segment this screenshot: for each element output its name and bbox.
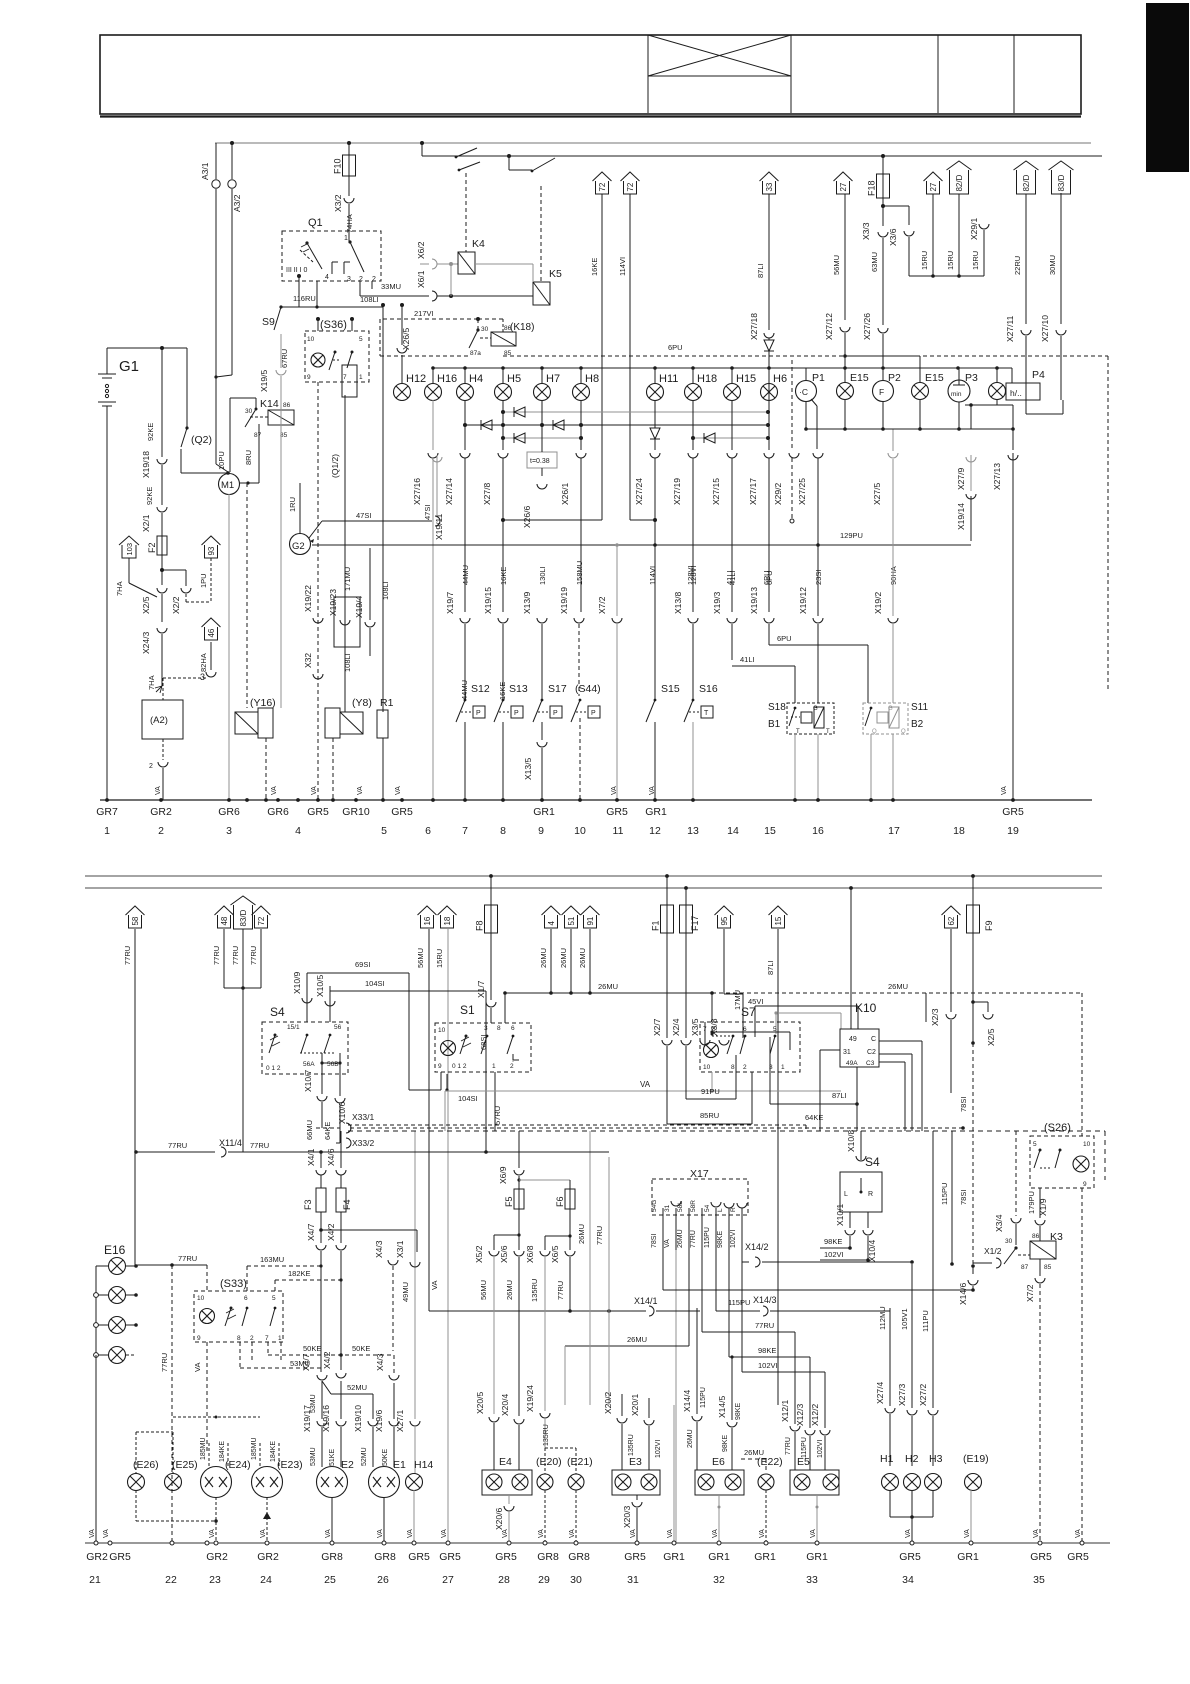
connector X19/14: [970, 496, 972, 541]
arrow symbol 62: [945, 915, 958, 928]
connector X10/1: [849, 1212, 851, 1228]
connector X6/1: [432, 291, 437, 301]
svg-text:X6/5: X6/5: [550, 1245, 560, 1263]
svg-text:66MU: 66MU: [305, 1120, 314, 1140]
svg-text:77RU: 77RU: [123, 946, 132, 965]
svg-text:E15: E15: [850, 372, 869, 384]
svg-text:X19/18: X19/18: [141, 451, 151, 478]
wire M1 ground: [228, 494, 230, 800]
svg-text:(E24): (E24): [225, 1459, 251, 1471]
svg-text:128VI: 128VI: [686, 565, 695, 585]
svg-text:92KE: 92KE: [145, 487, 154, 505]
title block dividers: [937, 35, 939, 113]
svg-text:5: 5: [272, 1295, 276, 1302]
svg-text:X19/7: X19/7: [445, 592, 455, 614]
svg-text:F: F: [879, 387, 884, 397]
svg-text:2: 2: [510, 1063, 514, 1070]
svg-text:22RU: 22RU: [1013, 256, 1022, 275]
svg-text:X19/14: X19/14: [956, 503, 966, 530]
fuse F5: [514, 1189, 524, 1209]
svg-text:X19/6: X19/6: [374, 1410, 384, 1432]
svg-text:9: 9: [307, 374, 311, 381]
svg-text:X4/6: X4/6: [326, 1148, 336, 1166]
svg-text:7: 7: [703, 1026, 707, 1033]
svg-text:C: C: [871, 1036, 876, 1043]
svg-text:A3/1: A3/1: [200, 162, 210, 180]
svg-text:S17: S17: [548, 683, 567, 695]
svg-text:VA: VA: [441, 1529, 448, 1538]
arrow symbol 72 bottom: [255, 915, 268, 928]
svg-text:82HA: 82HA: [199, 653, 208, 672]
diode row 2: [465, 424, 768, 426]
svg-text:7: 7: [462, 825, 468, 837]
wire VA bus: [445, 1090, 841, 1092]
svg-text:F18: F18: [867, 180, 877, 196]
svg-text:158MU: 158MU: [575, 561, 584, 585]
K10 wires: [850, 888, 852, 1029]
svg-text:VA: VA: [611, 786, 618, 795]
lamp H12: [394, 384, 411, 401]
lamp P4: [989, 383, 1006, 400]
svg-text:103: 103: [125, 543, 134, 556]
wire S36 pin9: [317, 382, 319, 800]
svg-text:(Y8): (Y8): [352, 697, 372, 709]
svg-text:VA: VA: [1033, 1529, 1040, 1538]
dashed separator line: [348, 1130, 1105, 1132]
svg-text:54: 54: [704, 1204, 711, 1212]
svg-text:185MU: 185MU: [200, 1437, 207, 1460]
svg-text:41LI: 41LI: [740, 655, 755, 664]
svg-text:(E25): (E25): [172, 1459, 198, 1471]
svg-text:(S44): (S44): [575, 683, 601, 695]
svg-text:53MU: 53MU: [310, 1447, 317, 1466]
svg-text:16: 16: [812, 825, 824, 837]
svg-text:9: 9: [197, 1335, 201, 1342]
arrow symbol 27: [837, 181, 850, 194]
svg-text:X24/3: X24/3: [141, 632, 151, 654]
svg-text:X27/18: X27/18: [749, 313, 759, 340]
svg-text:56: 56: [334, 1024, 342, 1031]
svg-text:X12/3: X12/3: [795, 1404, 805, 1426]
svg-text:H5: H5: [507, 373, 521, 385]
svg-text:49: 49: [849, 1036, 857, 1043]
svg-text:82/D: 82/D: [955, 174, 964, 191]
svg-text:S16: S16: [699, 683, 718, 695]
svg-text:S12: S12: [471, 683, 490, 695]
wires between lamps and switches: [432, 400, 434, 450]
svg-text:27: 27: [442, 1574, 454, 1586]
arrow symbol 72: [624, 181, 637, 194]
lamp H8: [573, 384, 590, 401]
svg-text:GR8: GR8: [568, 1551, 590, 1563]
svg-text:31: 31: [664, 1204, 671, 1212]
svg-text:X19/2: X19/2: [873, 592, 883, 614]
svg-text:52MU: 52MU: [347, 1383, 367, 1392]
connector X27/19: [688, 453, 698, 458]
svg-text:52MU: 52MU: [361, 1447, 368, 1466]
svg-text:H2: H2: [905, 1453, 919, 1465]
connector X10/9: [306, 973, 308, 1022]
svg-text:102VI: 102VI: [655, 1440, 662, 1458]
arrow symbol 91 bottom: [584, 915, 597, 928]
svg-text:VA: VA: [905, 1529, 912, 1538]
wire X26/5: [401, 305, 403, 345]
svg-text:X14/2: X14/2: [745, 1242, 769, 1252]
svg-text:VA: VA: [209, 1529, 216, 1538]
svg-text:GR2: GR2: [206, 1551, 228, 1563]
svg-text:30: 30: [570, 1574, 582, 1586]
connector X4/3 b: [389, 1375, 399, 1380]
svg-text:63MU: 63MU: [870, 252, 879, 272]
svg-text:X26/1: X26/1: [560, 483, 570, 505]
svg-text:X20/5: X20/5: [475, 1392, 485, 1414]
svg-text:130LI: 130LI: [538, 566, 547, 585]
wire X19/18: [161, 348, 163, 457]
svg-text:8: 8: [500, 825, 506, 837]
connector X19/23: [334, 597, 360, 647]
svg-text:X10/8: X10/8: [846, 1130, 856, 1152]
svg-text:E15: E15: [925, 372, 944, 384]
svg-text:31: 31: [627, 1574, 639, 1586]
svg-text:87LI: 87LI: [756, 263, 765, 278]
svg-text:51KE: 51KE: [329, 1449, 336, 1466]
svg-text:GR2: GR2: [257, 1551, 279, 1563]
svg-text:X19/15: X19/15: [483, 587, 493, 614]
svg-text:VA: VA: [649, 786, 656, 795]
connector X13/5: [537, 742, 547, 747]
svg-text:34: 34: [902, 1574, 914, 1586]
svg-text:X6/2: X6/2: [416, 241, 426, 259]
svg-text:26MU: 26MU: [677, 1229, 684, 1248]
svg-text:22: 22: [165, 1574, 177, 1586]
svg-text:15RU: 15RU: [435, 949, 444, 968]
arrow symbol 33: [763, 181, 776, 194]
arrow symbol 51 bottom: [565, 915, 578, 928]
svg-text:X5/6: X5/6: [499, 1245, 509, 1263]
svg-text:15/1: 15/1: [287, 1024, 300, 1031]
svg-text:69SI: 69SI: [355, 960, 370, 969]
svg-text:VA: VA: [1075, 1529, 1082, 1538]
relay K4: [458, 252, 475, 274]
black corner bar: [1146, 3, 1189, 172]
svg-text:54G: 54G: [651, 1200, 658, 1212]
timer box: [527, 452, 557, 468]
connector X27/24: [650, 453, 660, 458]
svg-text:98KE: 98KE: [758, 1346, 776, 1355]
connector X3/2: [348, 176, 350, 196]
svg-text:P3: P3: [965, 372, 978, 384]
connector X27/25: [813, 453, 823, 458]
connector X19/22: [313, 618, 323, 623]
connector X19/13: [764, 618, 774, 623]
P row top bus: [830, 367, 1012, 369]
svg-text:F1: F1: [651, 920, 661, 931]
svg-text:X10/5: X10/5: [315, 975, 325, 997]
svg-text:6PU: 6PU: [777, 634, 792, 643]
svg-text:24: 24: [260, 1574, 272, 1586]
svg-text:129PU: 129PU: [840, 531, 863, 540]
svg-text:K10: K10: [855, 1001, 877, 1015]
svg-text:X2/3: X2/3: [930, 1008, 940, 1026]
svg-text:G2: G2: [292, 541, 305, 552]
wire E16 ground: [95, 1355, 97, 1543]
svg-text:X27/9: X27/9: [956, 468, 966, 490]
connector X13/8: [688, 618, 698, 623]
svg-text:K5: K5: [549, 268, 562, 280]
svg-text:GR10: GR10: [342, 806, 370, 818]
svg-text:P: P: [591, 710, 596, 717]
svg-text:GR5: GR5: [899, 1551, 921, 1563]
svg-text:72: 72: [257, 916, 266, 925]
wire 171MU: [344, 395, 346, 712]
svg-text:1: 1: [278, 1335, 282, 1342]
connector X13/9: [537, 618, 547, 623]
svg-text:64KE: 64KE: [805, 1113, 823, 1122]
svg-text:10: 10: [574, 825, 586, 837]
wire 114VI: [629, 194, 631, 520]
svg-text:98KE: 98KE: [717, 1231, 724, 1248]
svg-text:X10/7: X10/7: [303, 1070, 313, 1092]
svg-text:H6: H6: [773, 373, 787, 385]
svg-text:E1: E1: [393, 1459, 406, 1471]
svg-text:108LI: 108LI: [360, 295, 379, 304]
svg-text:28: 28: [498, 1574, 510, 1586]
diode row 1: [503, 411, 768, 413]
svg-text:18: 18: [953, 825, 965, 837]
svg-text:P: P: [514, 710, 519, 717]
diode H11: [650, 428, 660, 439]
svg-text:E5: E5: [797, 1456, 810, 1468]
svg-text:29: 29: [538, 1574, 550, 1586]
svg-text:33MU: 33MU: [381, 282, 401, 291]
svg-text:26MU: 26MU: [578, 948, 587, 968]
svg-text:GR5: GR5: [1030, 1551, 1052, 1563]
svg-text:77RU: 77RU: [690, 1230, 697, 1248]
svg-text:X14/5: X14/5: [717, 1396, 727, 1418]
svg-text:GR5: GR5: [307, 806, 329, 818]
wire G1 minus: [106, 406, 108, 800]
svg-text:E16: E16: [104, 1243, 126, 1257]
fuse F9: [972, 876, 974, 905]
svg-text:X10/6: X10/6: [337, 1102, 347, 1124]
wire 78SI dashed: [972, 1002, 974, 1043]
arrow symbol 48 bottom: [218, 915, 231, 928]
connectors X5 X6: [518, 1209, 520, 1250]
connector X3/1b: [410, 1262, 420, 1267]
svg-text:GR5: GR5: [408, 1551, 430, 1563]
svg-text:108LI: 108LI: [343, 653, 352, 672]
wire A3/1: [215, 143, 217, 179]
svg-text:S13: S13: [509, 683, 528, 695]
svg-text:26MU: 26MU: [559, 948, 568, 968]
svg-text:1: 1: [492, 1063, 496, 1070]
svg-text:18: 18: [443, 916, 452, 925]
svg-text:X3/2: X3/2: [333, 194, 343, 212]
svg-text:9: 9: [438, 1063, 442, 1070]
svg-text:VA: VA: [430, 1281, 439, 1290]
arrow symbol 95 bottom: [718, 915, 731, 928]
connector X19/4: [369, 548, 371, 620]
connector X4/3: [388, 1260, 398, 1265]
svg-text:1PU: 1PU: [199, 573, 208, 588]
svg-text:6PU: 6PU: [762, 570, 771, 585]
svg-text:P2: P2: [888, 372, 901, 384]
svg-text:(E22): (E22): [757, 1456, 783, 1468]
svg-text:X13/9: X13/9: [522, 592, 532, 614]
fuse F8: [490, 876, 492, 905]
svg-text:62: 62: [947, 916, 956, 925]
svg-text:26MU: 26MU: [687, 1429, 694, 1448]
svg-text:X14/6: X14/6: [958, 1283, 968, 1305]
svg-text:X20/6: X20/6: [494, 1508, 504, 1530]
connector X19/19: [574, 618, 584, 623]
svg-text:P4: P4: [1032, 369, 1045, 381]
svg-text:8: 8: [497, 1025, 501, 1032]
svg-text:78SI: 78SI: [959, 1097, 968, 1112]
svg-text:135RU: 135RU: [530, 1279, 539, 1302]
connector X27/16: [428, 453, 438, 458]
fuse F17: [685, 888, 687, 905]
long wire 78SI: [663, 1289, 973, 1291]
svg-text:26: 26: [377, 1574, 389, 1586]
svg-text:5: 5: [381, 825, 387, 837]
svg-text:64KE: 64KE: [323, 1122, 332, 1140]
svg-text:X26/6: X26/6: [522, 506, 532, 528]
svg-text:77RU: 77RU: [212, 946, 221, 965]
dashed box border: [380, 355, 469, 357]
svg-text:15: 15: [764, 825, 776, 837]
svg-text:2: 2: [158, 825, 164, 837]
wire h-box right: [1025, 349, 1027, 414]
wire 56MU down: [428, 929, 430, 1311]
svg-text:X19/23: X19/23: [328, 589, 338, 616]
svg-text:T: T: [796, 729, 800, 735]
connector X4/7 b: [317, 1375, 327, 1380]
svg-text:(S36): (S36): [320, 319, 347, 331]
svg-text:(E26): (E26): [133, 1459, 159, 1471]
svg-text:K4: K4: [472, 238, 485, 250]
connector X7/2b: [1039, 1259, 1041, 1276]
svg-text:X1/2: X1/2: [984, 1246, 1002, 1256]
svg-text:95: 95: [720, 916, 729, 925]
svg-text:VA: VA: [395, 786, 402, 795]
connector X6/2: [432, 259, 437, 269]
svg-text:M1: M1: [221, 480, 234, 491]
svg-text:X29/2: X29/2: [773, 483, 783, 505]
wire 6PU jog: [769, 644, 868, 646]
lamp H7: [534, 384, 551, 401]
connector X27/14: [460, 453, 470, 458]
svg-text:III II I 0: III II I 0: [286, 267, 308, 274]
svg-text:7: 7: [343, 374, 347, 381]
svg-text:21: 21: [89, 1574, 101, 1586]
svg-text:30MU: 30MU: [1048, 255, 1057, 275]
svg-text:77RU: 77RU: [160, 1353, 169, 1372]
wire G1 plus: [106, 348, 108, 374]
svg-text:35: 35: [1033, 1574, 1045, 1586]
svg-text:135RU: 135RU: [543, 1424, 550, 1446]
svg-text:VA: VA: [271, 786, 278, 795]
svg-text:H4: H4: [469, 373, 483, 385]
svg-text:X6/8: X6/8: [525, 1245, 535, 1263]
svg-text:77RU: 77RU: [178, 1254, 197, 1263]
svg-text:X19/10: X19/10: [353, 1405, 363, 1432]
svg-text:8RU: 8RU: [244, 450, 253, 465]
svg-text:P: P: [476, 710, 481, 717]
svg-text:X27/24: X27/24: [634, 478, 644, 505]
svg-text:87: 87: [254, 432, 262, 439]
svg-text:16: 16: [423, 916, 432, 925]
svg-text:87LI: 87LI: [766, 960, 775, 975]
svg-text:25: 25: [324, 1574, 336, 1586]
svg-text:P1: P1: [812, 372, 825, 384]
svg-text:X2/4: X2/4: [671, 1018, 681, 1036]
svg-text:GR1: GR1: [663, 1551, 685, 1563]
arrow symbol 103: [122, 545, 136, 558]
svg-text:A3/2: A3/2: [232, 194, 242, 212]
connector X19/10: [368, 1421, 378, 1426]
svg-text:X27/13: X27/13: [992, 463, 1002, 490]
lamp H16: [425, 384, 442, 401]
svg-text:X4/7: X4/7: [301, 1353, 311, 1371]
svg-text:GR5: GR5: [391, 806, 413, 818]
svg-text:78SI: 78SI: [651, 1234, 658, 1248]
svg-text:30: 30: [1005, 1238, 1013, 1245]
wire 1RU: [299, 483, 301, 534]
connector X19/3: [727, 618, 737, 623]
connector X19/2: [888, 618, 898, 623]
lamp top bus: [433, 367, 830, 369]
svg-text:X12/1: X12/1: [780, 1400, 790, 1422]
svg-text:GR1: GR1: [708, 1551, 730, 1563]
svg-text:B1: B1: [768, 719, 781, 730]
svg-text:X27/3: X27/3: [897, 1384, 907, 1406]
E15b jog wire: [843, 354, 847, 358]
svg-text:115PU: 115PU: [728, 1298, 750, 1307]
svg-text:56A: 56A: [303, 1061, 315, 1068]
svg-text:9: 9: [1083, 1181, 1087, 1188]
svg-text:7HA: 7HA: [147, 675, 156, 690]
svg-text:G1: G1: [119, 358, 139, 375]
svg-text:X6/9: X6/9: [498, 1166, 508, 1184]
connector X1/7: [490, 933, 492, 1000]
svg-text:49A: 49A: [846, 1060, 858, 1067]
svg-text:26MU: 26MU: [505, 1280, 514, 1300]
svg-text:92KE: 92KE: [146, 423, 155, 441]
svg-text:GR2: GR2: [86, 1551, 108, 1563]
svg-text:5: 5: [1033, 1141, 1037, 1148]
svg-text:78SI: 78SI: [959, 1190, 968, 1205]
svg-text:Q: Q: [901, 729, 906, 735]
fuse F1: [666, 876, 668, 905]
svg-text:15RU: 15RU: [946, 251, 955, 270]
svg-text:F10: F10: [333, 158, 343, 174]
svg-text:(A2): (A2): [150, 715, 168, 726]
svg-text:9: 9: [538, 825, 544, 837]
svg-text:98KE: 98KE: [722, 1435, 729, 1452]
connector X20/6: [504, 1506, 514, 1511]
svg-text:13: 13: [687, 825, 699, 837]
svg-text:X2/5: X2/5: [141, 596, 151, 614]
svg-text:33: 33: [765, 182, 774, 191]
svg-text:X27/12: X27/12: [824, 313, 834, 340]
svg-text:23: 23: [209, 1574, 221, 1586]
svg-text:X14/1: X14/1: [634, 1296, 658, 1306]
connector X10/8: [860, 1131, 862, 1160]
svg-text:(Y16): (Y16): [250, 697, 276, 709]
svg-text:77RU: 77RU: [556, 1281, 565, 1300]
svg-text:T: T: [826, 729, 830, 735]
